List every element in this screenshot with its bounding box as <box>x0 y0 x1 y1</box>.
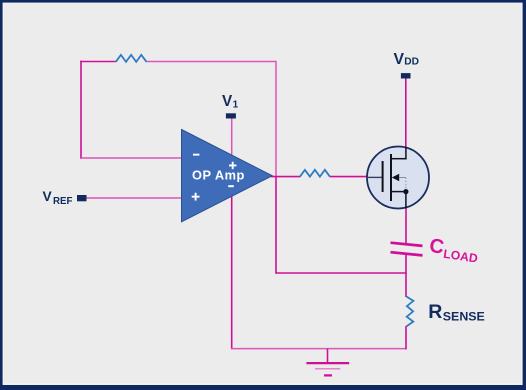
wire feedback left vertical <box>80 61 82 159</box>
wire junction to Rsense <box>405 273 407 297</box>
node V1 terminal <box>226 113 236 118</box>
svg-text:OP Amp: OP Amp <box>192 167 245 182</box>
label V1 <box>222 93 239 111</box>
wire ground stem <box>327 349 329 363</box>
wire op-amp output <box>271 176 300 178</box>
wire feedback top-left horizontal <box>80 61 116 63</box>
wire Rsense to bottom rail <box>405 326 407 349</box>
label VREF <box>43 189 73 207</box>
svg-text:R: R <box>428 301 442 323</box>
wire junction horizontal <box>276 272 406 274</box>
node VDD terminal <box>401 73 411 78</box>
svg-text:REF: REF <box>53 196 72 207</box>
svg-text:DD: DD <box>404 57 419 68</box>
wire to op-amp inverting input <box>81 157 182 159</box>
wire capacitor to junction <box>405 255 407 274</box>
resistor gate <box>300 170 330 177</box>
wire V1 vertical upper <box>231 119 233 188</box>
svg-text:V: V <box>394 51 405 68</box>
wire feedback right vertical lower <box>275 177 277 274</box>
wire source to capacitor <box>405 207 407 244</box>
label VDD <box>394 51 420 68</box>
transistor Q1 MOSFET <box>367 147 429 209</box>
wire bottom rail <box>231 348 407 350</box>
svg-text:V: V <box>222 93 233 110</box>
svg-text:SENSE: SENSE <box>443 310 485 324</box>
wire feedback right vertical upper <box>275 62 277 178</box>
node VREF terminal <box>77 195 87 201</box>
wire VDD <box>405 79 407 160</box>
wire V1 vertical lower <box>231 187 233 349</box>
op-amp U1 <box>182 130 273 222</box>
capacitor CLOAD <box>391 243 423 256</box>
resistor feedback (top-left) <box>116 55 147 62</box>
ground <box>306 363 349 375</box>
resistor RSENSE <box>406 296 413 326</box>
svg-text:V: V <box>43 189 53 204</box>
label CLOAD <box>428 235 481 266</box>
label RSENSE <box>428 301 485 324</box>
wire gate <box>330 176 368 178</box>
svg-text:1: 1 <box>233 99 239 110</box>
wire VREF to op-amp non-inverting input <box>87 197 183 199</box>
wire feedback top horizontal right of resistor <box>147 61 277 63</box>
